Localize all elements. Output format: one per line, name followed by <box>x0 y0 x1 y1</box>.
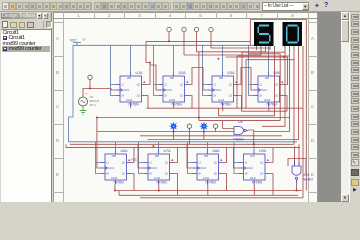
wire conn2 stem <box>183 32 185 55</box>
svg-text:1J: 1J <box>198 162 201 165</box>
svg-text:1Q: 1Q <box>137 95 140 98</box>
svg-text:U1A: U1A <box>136 71 144 75</box>
wire bus mid4 <box>199 120 280 122</box>
wire conn3 drop <box>198 52 200 121</box>
wire notQ5 down <box>131 174 135 191</box>
wire U10 loop <box>288 159 306 176</box>
svg-text:1PR: 1PR <box>170 77 175 80</box>
svg-text:1Q: 1Q <box>214 162 217 165</box>
svg-text:1K: 1K <box>121 95 124 98</box>
wire U2 CLR <box>173 107 175 109</box>
wire U8 CLK <box>234 148 240 168</box>
JK flip-flop U7A <box>144 149 175 185</box>
svg-text:NAND: NAND <box>303 178 314 182</box>
wire U10 out <box>296 183 298 191</box>
svg-text:1CLK: 1CLK <box>108 167 114 170</box>
svg-text:1K: 1K <box>164 95 167 98</box>
list item: mod99 counter selected <box>2 46 50 52</box>
wire U6 CLR <box>158 185 160 191</box>
VCC label bottom <box>131 158 137 162</box>
IO connector 1 <box>167 27 171 31</box>
list item: mod99 counter (root) <box>3 41 36 47</box>
svg-text:1J: 1J <box>121 84 124 87</box>
svg-text:7476N: 7476N <box>171 103 182 107</box>
wire VCC to JK pins bottom <box>96 142 101 174</box>
wire U4 in2 <box>223 121 234 129</box>
wire notQ1 down <box>146 96 149 109</box>
IO connector 2 <box>182 27 186 31</box>
svg-text:1PR: 1PR <box>250 155 255 158</box>
wire display2 p1 <box>242 50 285 126</box>
7-seg display digit 5 <box>254 22 274 46</box>
svg-text:1J: 1J <box>245 162 248 165</box>
svg-text:1K: 1K <box>213 95 216 98</box>
wire U10 in2 <box>298 144 300 166</box>
wire VCC rail top <box>73 44 269 46</box>
wire conn3 stem <box>196 32 198 52</box>
wire loop over displays <box>250 20 306 191</box>
wire U7 CLR <box>207 185 209 196</box>
wire IO1 junction <box>89 80 91 89</box>
wire Q3 to display <box>197 50 266 52</box>
svg-text:1J: 1J <box>106 162 109 165</box>
svg-text:1Q: 1Q <box>165 173 168 176</box>
svg-text:1Q: 1Q <box>229 84 232 87</box>
NAND gate U10 <box>292 162 313 184</box>
JK flip-flop U5A <box>254 71 285 107</box>
wire VCC to PR pin <box>130 45 132 71</box>
svg-text:1PR: 1PR <box>219 77 224 80</box>
svg-text:1Q: 1Q <box>180 84 183 87</box>
wire Q2 to display <box>184 50 261 55</box>
wire right link <box>302 191 304 198</box>
svg-text:1Q: 1Q <box>260 173 263 176</box>
schematic page white background <box>53 12 318 202</box>
IO connector near V1 <box>88 75 92 79</box>
wire Q4 to display <box>211 48 270 50</box>
wire VCC to JK pins <box>154 45 159 95</box>
svg-text:1PR: 1PR <box>112 155 117 158</box>
svg-text:U6A: U6A <box>121 149 129 153</box>
svg-text:VCC: VCC <box>70 39 77 43</box>
svg-text:1CLK: 1CLK <box>247 167 253 170</box>
wire Q5 up <box>131 148 135 163</box>
svg-text:7476N: 7476N <box>220 103 231 107</box>
wire U5 CLK <box>97 132 101 169</box>
svg-text:1Q: 1Q <box>260 162 263 165</box>
wire Q8 up <box>270 148 274 163</box>
wire VCC to JK pins <box>249 45 254 95</box>
wire bus low0 <box>140 135 282 137</box>
wire VCC to JK pins bottom <box>188 142 193 174</box>
probe X2 (unlit connector) <box>187 124 191 128</box>
svg-text:VCC: VCC <box>131 158 137 162</box>
panel list box <box>1 29 51 203</box>
wire Q4 loop <box>226 54 288 121</box>
wire VCC to PR pin <box>222 45 224 71</box>
wire display2 p2 <box>237 50 290 132</box>
wire Q7 up <box>223 148 227 163</box>
wire U6 CLK <box>138 144 144 168</box>
wire notQ7 down <box>223 174 227 191</box>
probe X1 (lit) <box>169 122 177 130</box>
svg-text:U9A: U9A <box>259 149 267 153</box>
svg-text:U8A: U8A <box>213 149 221 153</box>
list item: Circuit1 (root) <box>3 30 19 36</box>
wire VCC to PR pin <box>268 45 270 71</box>
svg-text:7476N: 7476N <box>252 181 263 185</box>
VCC power symbol <box>70 38 86 46</box>
svg-text:1CLK: 1CLK <box>261 89 267 92</box>
display pins <box>257 46 304 50</box>
JK flip-flop U3A <box>208 71 239 107</box>
ground <box>80 106 86 115</box>
In Use List combo <box>262 2 309 11</box>
svg-text:1Q: 1Q <box>180 95 183 98</box>
svg-text:1Q: 1Q <box>122 173 125 176</box>
svg-text:1J: 1J <box>259 84 262 87</box>
wire U4 out <box>248 130 254 144</box>
JK flip-flop U6A <box>101 149 132 185</box>
svg-text:1CLK: 1CLK <box>123 89 129 92</box>
svg-text:1K: 1K <box>245 173 248 176</box>
right docked toolbar background <box>349 12 360 202</box>
panel toolbar icons <box>2 21 8 28</box>
svg-text:7476N: 7476N <box>128 103 139 107</box>
wire notQ3 down <box>238 96 242 112</box>
wire U10 in1 <box>294 146 296 166</box>
wire VCC to PR pin bottom <box>253 142 255 150</box>
svg-text:1CLK: 1CLK <box>215 89 221 92</box>
probe X3 (lit) <box>200 122 208 130</box>
wire U1 CLR <box>130 107 132 109</box>
svg-text:1Q: 1Q <box>137 84 140 87</box>
wire VCC to PR pin bottom <box>115 142 117 150</box>
wire display2 p5 <box>302 50 304 191</box>
svg-text:U7A: U7A <box>164 149 172 153</box>
wire U4 CLR <box>268 107 270 112</box>
svg-text:U3A: U3A <box>228 71 236 75</box>
wire Q1 to display <box>146 41 251 84</box>
wire U4 in1 line <box>97 118 234 132</box>
wire U5 CLR <box>114 185 116 191</box>
Design Toolbox panel <box>0 12 52 202</box>
wire VCC to JK pins bottom <box>234 142 239 174</box>
wire VCC to JK pins <box>203 45 208 95</box>
svg-text:1J: 1J <box>164 84 167 87</box>
wire U7 CLK <box>187 144 193 168</box>
wire VCC to PR pin <box>173 45 175 71</box>
wire VCC left vertical with jog and lower rail <box>69 45 298 142</box>
svg-text:1CLK: 1CLK <box>166 89 172 92</box>
gray workspace right of page <box>318 12 341 202</box>
wire bus bot3 <box>140 197 303 199</box>
wire notQ2 down <box>189 96 193 109</box>
IO connector 3 <box>194 27 198 31</box>
wire notQ8 down <box>270 174 274 196</box>
sheet border: top strip <box>53 12 318 19</box>
svg-text:1PR: 1PR <box>155 155 160 158</box>
wire conn4 stem <box>210 32 212 48</box>
svg-text:7476N: 7476N <box>205 181 216 185</box>
wire bus bot1 <box>115 190 302 192</box>
JK flip-flop U1A <box>116 71 147 107</box>
svg-text:U10: U10 <box>303 173 310 177</box>
wire probe1 stem <box>173 129 175 140</box>
wire probe3 stem <box>203 129 205 140</box>
svg-text:1K: 1K <box>198 173 201 176</box>
wire probe4 stem <box>215 129 217 132</box>
wire V1 to U1A CLK <box>83 89 116 98</box>
wire VCC to PR pin bottom <box>158 142 160 150</box>
wire bus low3 <box>66 147 300 149</box>
svg-text:7476N: 7476N <box>266 103 277 107</box>
svg-text:1K: 1K <box>106 173 109 176</box>
vertical scrollbar <box>341 12 349 202</box>
wire Q2 to U3 CLK <box>189 68 208 91</box>
wire bus low1 <box>148 139 299 141</box>
wire VCC to PR pin bottom <box>207 142 209 150</box>
svg-text:7476N: 7476N <box>156 181 167 185</box>
wire notQ6 down <box>174 174 178 196</box>
toolbar help icon <box>324 2 328 9</box>
list item: Circuit1 with page icon <box>3 36 8 41</box>
wire bus mid2 <box>242 110 288 112</box>
svg-text:U4: U4 <box>238 120 243 124</box>
wire Q3 to U4 CLK <box>238 68 254 91</box>
toolbar pointer icon <box>314 2 320 10</box>
svg-text:1Q: 1Q <box>275 84 278 87</box>
svg-text:1J: 1J <box>213 84 216 87</box>
svg-text:7476N: 7476N <box>113 181 124 185</box>
svg-text:1K: 1K <box>259 95 262 98</box>
JK flip-flop U9A <box>239 149 270 185</box>
wire probe2 stem <box>188 129 190 145</box>
svg-text:5V: 5V <box>82 38 86 42</box>
svg-text:1PR: 1PR <box>204 155 209 158</box>
wire Q6 up <box>174 148 178 163</box>
svg-text:1Q: 1Q <box>229 95 232 98</box>
wire bus mid3 <box>97 117 290 119</box>
JK flip-flop U8A <box>193 149 224 185</box>
wire conn1 stem <box>168 32 170 42</box>
NAND gate U4 <box>233 120 248 141</box>
top toolbar icons <box>2 2 9 10</box>
svg-text:1PR: 1PR <box>265 77 270 80</box>
sheet border: left strip line <box>63 12 64 202</box>
panel title bar <box>1 13 51 20</box>
svg-text:1PR: 1PR <box>127 77 132 80</box>
svg-text:1Q: 1Q <box>214 173 217 176</box>
wire U3 CLR <box>222 107 224 112</box>
svg-text:7400N: 7400N <box>233 137 244 141</box>
sheet border: right strip line <box>308 12 309 202</box>
svg-text:1Q: 1Q <box>275 95 278 98</box>
wire bus low2 <box>66 144 294 147</box>
wire bus mid1 <box>147 107 304 109</box>
svg-text:1J: 1J <box>149 162 152 165</box>
7-seg display digit 0 <box>283 22 303 46</box>
AC source V1 <box>79 91 100 107</box>
right toolbar icons <box>351 14 359 20</box>
wire VCC to JK pins bottom <box>139 142 144 174</box>
svg-text:1Q: 1Q <box>165 162 168 165</box>
wire notQ4 down <box>284 96 287 112</box>
wire Q1 to U2 CLK <box>150 65 159 90</box>
IO connector 4 <box>209 27 213 31</box>
svg-text:1Q: 1Q <box>122 162 125 165</box>
wire display pin5 down <box>219 50 275 116</box>
svg-text:U5A: U5A <box>274 71 282 75</box>
wire display2 p3 <box>246 50 294 144</box>
probe X4 (unlit connector) <box>213 124 217 128</box>
JK flip-flop U2A <box>159 71 190 107</box>
svg-text:1CLK: 1CLK <box>200 167 206 170</box>
svg-text:1CLK: 1CLK <box>151 167 157 170</box>
svg-text:+: + <box>85 91 88 96</box>
top toolbar background <box>0 0 360 12</box>
svg-text:U2A: U2A <box>179 71 187 75</box>
wire bus bot2 <box>119 191 298 196</box>
wire VCC to JK pins <box>111 45 116 95</box>
svg-text:15 V: 15 V <box>90 103 96 107</box>
wire display2 p4 <box>298 50 300 140</box>
wire U8 CLR <box>253 185 255 196</box>
svg-text:1K: 1K <box>149 173 152 176</box>
